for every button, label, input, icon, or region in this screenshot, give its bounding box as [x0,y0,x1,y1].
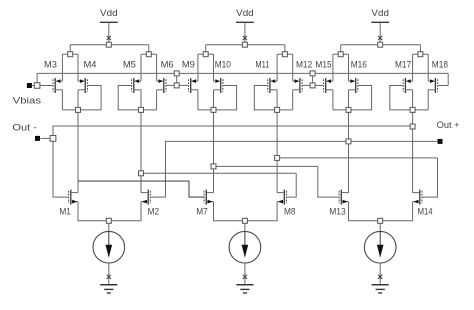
label Out- [12,123,37,133]
node route1/stage3 junction [410,124,415,129]
label M9 [182,60,195,70]
transistor M5 (PMOS) [132,78,141,93]
wire source bridge M5/M6 [141,52,157,81]
wire M13 source to tail [349,202,378,221]
node route2/stage3 junction [346,139,351,144]
wire M15 gate lead [315,84,323,86]
wire source bridge M17/M18 [413,52,429,81]
transistor M11 (PMOS) [268,78,277,93]
svg-text:M16: M16 [351,60,367,70]
label M7 [196,206,208,216]
svg-text:M17: M17 [395,60,411,70]
svg-text:Out -: Out - [12,123,37,133]
wire M18 drain [415,90,428,110]
terminal Out+ output [438,139,443,144]
node Vdd net junction stage 3 [378,42,383,47]
wire M9 drain [198,90,211,110]
wire output node column M9-side [213,90,215,193]
wire output node column M12-side [276,90,278,193]
transistor M18 (PMOS) [428,78,437,93]
wire M16 gate-drain loop [351,86,372,110]
svg-text:M18: M18 [432,60,448,70]
node Vdd net junction stage 1 [106,42,111,47]
transistor M8 (NMOS) [277,190,286,205]
transistor M1 (NMOS) [69,190,78,205]
wire M2 source to tail [111,202,141,221]
wire output node column M3-side [77,90,79,193]
node Vdd net junction stage 2 [242,42,247,47]
wire Vbias rail [37,73,448,83]
label Out+ [437,120,460,130]
node Vbias tap M6/M9 [174,71,179,88]
node tail junction stage 3 [378,218,383,223]
svg-text:M8: M8 [284,206,296,216]
label M8 [284,206,296,216]
node drain junction right stage 1 [139,107,144,112]
svg-text:M10: M10 [215,60,231,70]
label Vbias [13,96,42,106]
wire M11 gate-drain loop [254,86,274,110]
label M18 [432,60,448,70]
svg-text:Vdd: Vdd [100,8,118,18]
label M4 [84,60,97,70]
label M16 [351,60,367,70]
node Out- junction [50,136,56,142]
wire M17 gate-drain loop [390,86,410,110]
wire Vdd rail stage 2 [206,45,285,52]
wire route stage2- to M13 gate [216,166,339,197]
node drain junction right stage 3 [410,107,415,112]
wire M6 gate lead [166,84,174,86]
node drain junction right stage 2 [275,107,280,112]
label M12 [296,60,312,70]
wire source bridge M15/M16 [333,52,349,81]
current source I2 [229,223,261,284]
svg-text:M4: M4 [84,60,97,70]
transistor M3 (PMOS) [53,78,62,93]
transistor M17 (PMOS) [403,78,412,93]
node drain junction left stage 1 [76,107,81,112]
wire output node column M15-side [348,90,350,193]
svg-text:M12: M12 [296,60,312,70]
terminal Out- output [35,136,50,141]
transistor M12 (PMOS) [293,78,302,93]
wire M12 drain [280,90,293,110]
wire M18 gate lead [438,73,449,85]
transistor M9 (PMOS) [189,78,198,93]
wire output node column M18-side [412,90,414,193]
wire output node column M6-side [140,90,142,193]
svg-text:M5: M5 [123,60,136,70]
svg-text:M13: M13 [329,206,346,216]
wire route stage2+ to M14 gate [280,158,438,197]
current source I3 [364,223,396,284]
wire M8 source to tail [247,202,277,221]
wire M9 gate lead [179,84,188,86]
power Vdd symbol stage 1 [100,8,118,42]
svg-text:M15: M15 [315,60,331,70]
transistor M6 (PMOS) [157,78,166,93]
node tail junction stage 1 [106,218,111,223]
transistor M13 (NMOS) [339,190,348,205]
node drain junction left stage 2 [211,107,216,112]
label M3 [44,60,57,70]
ground stage 1 [100,275,117,293]
svg-text:M1: M1 [59,206,71,216]
label M17 [395,60,411,70]
wire feedback route stage3- to M2 gate (Out+ net) [150,141,437,197]
wire feedback route stage3+ to M1 gate (Out- net) [53,126,413,197]
label M2 [148,206,160,216]
label M11 [255,60,269,70]
transistor M7 (NMOS) [204,190,213,205]
wire M4 gate-drain loop [81,86,102,110]
svg-text:M11: M11 [255,60,269,70]
ground stage 3 [372,275,389,293]
terminal Vbias input [27,83,35,88]
svg-text:M2: M2 [148,206,160,216]
svg-text:M14: M14 [418,206,433,216]
svg-text:Vdd: Vdd [371,8,389,18]
wire source bridge M3/M4 [62,52,78,81]
wire M10 gate-drain loop [216,86,237,110]
wire Vbias to M3 gate [40,85,53,87]
wire M6 drain [144,90,157,110]
node Vbias tap M12/M15 [310,71,315,88]
node route3/stage2 junction [275,155,280,160]
transistor M15 (PMOS) [324,78,333,93]
svg-text:Out +: Out + [437,120,460,130]
transistor M2 (NMOS) [141,190,150,205]
label M15 [315,60,331,70]
wire route stage1- to M7 gate [78,181,204,197]
label M10 [215,60,231,70]
svg-text:M9: M9 [182,60,195,70]
svg-text:Vbias: Vbias [13,96,42,106]
svg-text:Vdd: Vdd [236,8,254,18]
wire M1 source to tail [78,202,106,221]
svg-text:M6: M6 [161,60,174,70]
wire source bridge M9/M10 [198,52,214,81]
current source I1 [93,223,125,284]
wire M3 drain [62,90,75,110]
transistor M16 (PMOS) [349,78,358,93]
transistor M4 (PMOS) [78,78,87,93]
label M1 [59,206,71,216]
node route5/stage1 junction [139,171,144,176]
wire M15 drain [333,90,346,110]
wire M5 gate-drain loop [118,86,138,110]
label M13 [329,206,346,216]
power Vdd symbol stage 2 [236,8,254,42]
wire M12 gate lead [302,84,310,86]
transistor M14 (NMOS) [413,190,422,205]
wire source bridge M11/M12 [277,52,293,81]
label M6 [161,60,174,70]
node drain junction left stage 3 [346,107,351,112]
node Vbias junction [34,83,40,89]
label M5 [123,60,136,70]
wire Vdd rail stage 3 [341,45,421,52]
wire Vdd rail stage 1 [70,45,149,52]
ground stage 2 [236,275,253,293]
svg-text:M7: M7 [196,206,208,216]
svg-text:M3: M3 [44,60,57,70]
label M14 [418,206,433,216]
wire M14 source to tail [383,202,413,221]
transistor M10 (PMOS) [214,78,223,93]
wire route stage1+ to M8 gate [144,173,297,197]
node route4/stage2 junction [211,164,216,169]
node tail junction stage 2 [242,218,247,223]
power Vdd symbol stage 3 [371,8,389,42]
wire M7 source to tail [214,202,243,221]
